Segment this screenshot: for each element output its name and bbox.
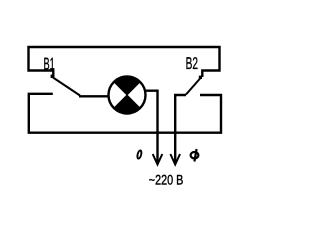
wire lamp left [79,95,109,97]
switch B1 contact dot [51,75,54,78]
lamp HL top sector [114,76,140,95]
switch B1 blade [53,78,80,96]
wire bottom bus [29,94,221,133]
label 0 (neutral) [137,150,142,158]
arrowhead F [170,154,180,165]
arrowhead 0 [153,154,163,165]
wire lamp right to 0 [146,91,158,164]
lamp HL outline [109,77,146,114]
svg-text:~220 В: ~220 В [149,173,184,188]
wire top bus [29,47,220,77]
switch B2 contact dot [199,76,202,79]
svg-text:В2: В2 [186,54,198,73]
label F (phase) [191,149,199,162]
wire B2 common to F [175,95,186,164]
svg-text:В1: В1 [44,54,55,73]
switch B2 blade [186,78,201,95]
lamp HL bottom sector [114,95,140,114]
